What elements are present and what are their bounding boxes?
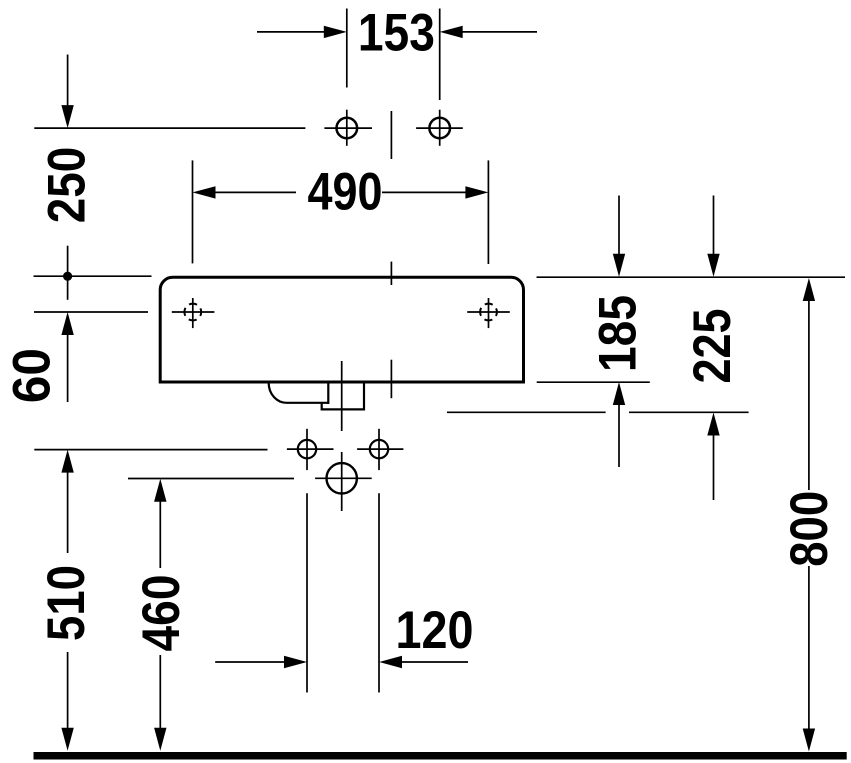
drain hole big circle: [327, 463, 357, 493]
hanger hole right crosshair horizontal: [467, 311, 510, 313]
arrowhead 60 up: [61, 312, 73, 335]
hanger hole left crosshair vertical: [192, 298, 194, 328]
arrowhead 185 bottom: [613, 382, 625, 405]
arrowhead 120 left: [284, 656, 307, 668]
dimension line segment through dot: [67, 246, 69, 300]
extension line left of dim 153: [346, 9, 348, 88]
extension line right of dim 490: [487, 160, 489, 264]
big circle line 460 left: [128, 478, 294, 480]
hanger hole left dashed circle: [184, 304, 201, 321]
svg-text:185: 185: [589, 295, 648, 372]
faucet hole left circle: [337, 118, 358, 139]
drain lip extension line right part: [629, 411, 749, 413]
dimension line 185 top shaft: [618, 196, 620, 257]
supply hole left circle: [298, 440, 316, 458]
dimension line 510 upper shaft: [67, 470, 69, 553]
top line right section: [537, 276, 846, 278]
drain hole crosshair vertical: [341, 452, 343, 511]
svg-text:60: 60: [2, 348, 61, 403]
faucet hole right crosshair vertical: [439, 110, 441, 146]
hanger holes line left: [34, 311, 148, 313]
svg-text:460: 460: [132, 575, 191, 652]
arrowhead 225 top: [707, 254, 719, 277]
drain trap outline: [269, 382, 364, 409]
svg-text:250: 250: [37, 147, 96, 224]
supply hole right crosshair horizontal: [357, 448, 403, 450]
extension line left of dim 120: [306, 493, 308, 692]
basin bottom extension line right: [537, 381, 650, 383]
faucet hole right crosshair horizontal: [416, 127, 463, 129]
arrowhead 120 right: [379, 656, 402, 668]
arrowhead 153 right: [440, 26, 463, 38]
arrowhead 490 left: [193, 186, 216, 198]
arrowhead 510 bottom: [61, 728, 73, 751]
faucet hole left crosshair horizontal: [324, 127, 372, 129]
extension line left of dim 490: [192, 160, 194, 263]
supply hole left crosshair vertical: [306, 429, 308, 470]
svg-text:120: 120: [396, 601, 474, 660]
dimension line 510 lower shaft: [67, 652, 69, 730]
arrowhead 460 bottom: [154, 728, 166, 751]
centerline between faucet holes: [390, 111, 392, 159]
centerline at basin top: [390, 262, 392, 285]
dimension line 153 right shaft: [461, 31, 537, 33]
arrowhead 460 top: [154, 479, 166, 502]
svg-text:490: 490: [308, 162, 383, 221]
arrowhead 153 left: [324, 26, 347, 38]
wall line left with dot: [34, 275, 152, 277]
faucet hole right circle: [429, 118, 450, 139]
arrowhead 225 bottom: [707, 413, 719, 436]
arrowhead 800 top: [803, 278, 815, 301]
washbasin outline: [160, 277, 523, 382]
supply hole left crosshair horizontal: [287, 448, 334, 450]
arrowhead 800 bottom: [803, 729, 815, 752]
dimension line 225 top shaft: [713, 196, 715, 257]
svg-text:153: 153: [358, 3, 435, 62]
arrowhead 510 top: [61, 450, 73, 473]
svg-text:225: 225: [683, 309, 742, 384]
wall reference line top left: [34, 127, 305, 129]
dimension line 460 upper shaft: [159, 500, 161, 568]
dimension line 490 left shaft: [214, 191, 296, 193]
dimension line 250 top shaft: [67, 55, 69, 107]
extension line right of dim 153: [439, 9, 441, 101]
small circles line 510 left: [34, 449, 267, 451]
dimension line 490 right shaft: [382, 191, 467, 193]
arrowhead 250 top: [61, 105, 73, 128]
arrowhead 185 top: [613, 254, 625, 277]
dimension line 225 bottom shaft: [713, 434, 715, 500]
dimension line 120 right shaft: [400, 661, 468, 663]
dimension line 800 lower shaft: [808, 566, 810, 730]
drain hole crosshair horizontal: [315, 477, 372, 479]
centerline at basin bottom: [390, 360, 392, 399]
dimension dot endpoint 250/60: [63, 272, 72, 281]
svg-text:800: 800: [780, 491, 839, 567]
dimension line 60 shaft: [67, 333, 69, 402]
hanger hole left crosshair horizontal: [172, 311, 215, 313]
faucet hole left crosshair vertical: [346, 110, 348, 146]
floor line: [34, 752, 847, 760]
dimension line 460 lower shaft: [159, 655, 161, 730]
supply hole right circle: [370, 440, 388, 458]
hanger hole right dashed circle: [480, 304, 497, 321]
drain lip extension line left part: [447, 411, 606, 413]
dimension line 185 bottom shaft: [618, 403, 620, 467]
svg-text:510: 510: [37, 565, 96, 641]
dimension line 153 left shaft: [257, 31, 326, 33]
dimension line 120 left shaft: [215, 661, 285, 663]
arrowhead 490 right: [465, 186, 488, 198]
extension line right of dim 120: [378, 493, 380, 692]
drain centerline upper: [341, 361, 343, 431]
supply hole right crosshair vertical: [378, 429, 380, 470]
hanger hole right crosshair vertical: [488, 298, 490, 328]
dimension line 800 upper shaft: [808, 299, 810, 490]
